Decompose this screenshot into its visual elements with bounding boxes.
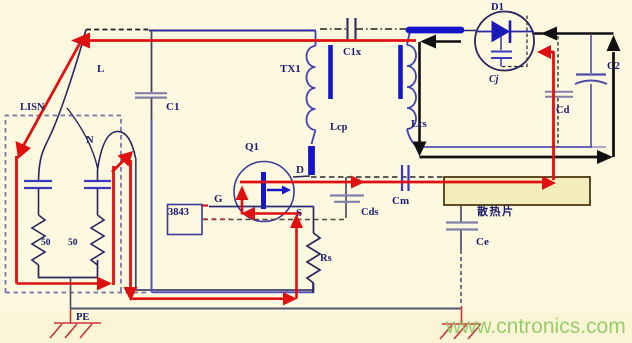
capacitor Cm plates (vertical, series) <box>402 165 409 191</box>
capacitor C1 branch top lead <box>151 31 153 92</box>
wire source to Rs <box>313 207 315 234</box>
svg-text:Cd: Cd <box>556 105 570 116</box>
red arrow right (into heatsink) <box>542 176 556 190</box>
svg-text:Lcp: Lcp <box>330 122 348 133</box>
capacitor lisn-left plates <box>24 181 52 188</box>
wire dashed Ce to earth <box>460 250 462 306</box>
svg-text:C2: C2 <box>607 61 620 72</box>
wire lisn-left cap to resistor <box>38 189 40 215</box>
wire: thin link blue bar to D1 anode <box>462 30 476 32</box>
wire Rs bottom lead <box>313 283 315 293</box>
svg-text:TX1: TX1 <box>280 63 301 75</box>
black noise loop right vertical <box>612 52 615 157</box>
wire dashed source-level return <box>203 219 346 221</box>
red arrow up (source) <box>290 214 303 229</box>
wire L input line (diagonal into LISN) <box>39 30 87 181</box>
black noise loop left stub + arrow <box>433 40 461 43</box>
red drain-level path <box>240 181 548 184</box>
resistor 50 (left) <box>32 215 45 265</box>
MOSFET Q1 circle <box>234 162 294 222</box>
svg-text:3843: 3843 <box>168 207 189 218</box>
wire gate/source line through Q1 <box>209 206 314 208</box>
resistor Rs <box>307 233 320 283</box>
svg-text:Q1: Q1 <box>245 141 259 153</box>
transformer core bar (left) <box>328 45 333 99</box>
capacitor Cds branch vertical <box>345 177 347 218</box>
red diagonal arrow up-right near N <box>112 158 126 172</box>
svg-text:S: S <box>296 207 302 219</box>
capacitor C2 plates (polarized) <box>576 73 606 75</box>
diode D1 circle <box>475 12 534 71</box>
svg-text:散热片: 散热片 <box>477 204 515 218</box>
wire N output vertical down <box>135 158 137 290</box>
LISN dashed bottom edge <box>6 292 148 294</box>
red vertical N output <box>129 160 132 296</box>
red gate loop vertical <box>241 191 244 215</box>
wire dashed Cj link to cathode <box>502 14 527 67</box>
red arrow left (top) <box>71 33 90 49</box>
ground (right, red) <box>440 306 481 339</box>
red arrow down-left (diagonal end) <box>16 141 32 159</box>
svg-text:D: D <box>296 164 304 176</box>
wire rail up to Rs bottom <box>312 283 314 293</box>
svg-text:G: G <box>214 193 223 205</box>
red gate loop horizontal <box>246 212 301 215</box>
capacitor C2 top lead <box>590 34 592 73</box>
svg-text:Ce: Ce <box>476 236 489 248</box>
diode D1 symbol <box>476 31 492 33</box>
wire Ce bottom lead <box>460 231 462 251</box>
red arrow down (below LISN) <box>124 287 138 301</box>
red vertical up to source <box>295 219 298 299</box>
capacitor Cd branch (dashed) <box>557 36 559 90</box>
wire bold blue segment (top, marked) <box>409 27 461 34</box>
black noise loop bottom <box>420 156 599 159</box>
capacitor Cd bottom dashed lead <box>557 98 559 147</box>
transformer core bar (right) <box>398 45 403 99</box>
LISN dashed enclosure box <box>6 116 122 293</box>
capacitor Cd plates <box>545 92 573 97</box>
svg-text:50: 50 <box>68 238 78 248</box>
wire C1 bottom lead down <box>151 99 153 120</box>
svg-text:Rs: Rs <box>320 253 332 264</box>
svg-text:PE: PE <box>76 312 89 323</box>
svg-text:C1x: C1x <box>343 47 362 58</box>
red arrow right (bottom path) <box>283 292 297 306</box>
capacitor Ce plates <box>446 223 478 230</box>
svg-text:C1: C1 <box>166 101 179 113</box>
red vertical to N branch <box>112 166 115 285</box>
transformer TX1 secondary winding Lcs <box>407 31 418 147</box>
wire: top dashed segment from L junction <box>86 29 149 31</box>
capacitor C2 bottom lead <box>590 84 592 147</box>
red arrow left (gate loop) <box>241 207 255 221</box>
wire lisn-left resistor to bottom bracket <box>39 260 98 278</box>
svg-text:N: N <box>86 135 94 146</box>
wire D1 cathode to right rail (top) <box>534 32 614 34</box>
black noise loop left vertical <box>418 42 421 145</box>
svg-text:Cj: Cj <box>489 74 499 85</box>
wire heatsink to Ce <box>460 205 462 222</box>
red vertical heatsink to D1 <box>552 52 555 180</box>
capacitor C1 plates <box>135 93 167 97</box>
wire red gate stub <box>201 204 208 206</box>
svg-text:50: 50 <box>41 238 51 248</box>
wire: top dash-dot segment right of C1x <box>356 28 407 30</box>
capacitor Cj (junction cap of D1) <box>500 33 502 50</box>
transformer TX1 primary winding Lcp <box>307 31 316 144</box>
svg-text:Cm: Cm <box>392 195 409 207</box>
wire PE center tap down from LISN <box>70 278 72 310</box>
red arrow right (LISN bottom) <box>97 277 112 291</box>
wire bold blue drain segment <box>308 146 315 175</box>
svg-text:L: L <box>97 63 104 75</box>
wire N input line (faint curve) <box>67 108 98 168</box>
wire dashed drain-level line <box>311 176 444 178</box>
resistor 50 (right) <box>91 215 104 265</box>
wire primary ground rail (blue) <box>152 291 314 293</box>
wire secondary return rail <box>418 146 592 148</box>
capacitor lisn-right plates <box>84 181 111 188</box>
red arrow up (gate loop) <box>236 186 249 201</box>
svg-text:D1: D1 <box>491 2 504 13</box>
wire N bottom rail to source node <box>136 289 313 291</box>
red stub + arrow left into D1 <box>545 51 555 54</box>
capacitor C1x plates (series in top line) <box>348 18 356 41</box>
red diagonal into LISN <box>21 43 80 150</box>
red bottom inside LISN <box>17 282 99 284</box>
svg-text:Lcs: Lcs <box>411 119 427 130</box>
red bottom path to source <box>131 297 289 300</box>
capacitor Cds plates <box>330 196 364 202</box>
wire PE horizontal protective-earth line <box>71 308 463 310</box>
IC 3843 box <box>168 205 203 235</box>
wire lisn-right cap to resistor <box>97 189 99 215</box>
MOSFET Q1 channel arrow (blue) <box>267 189 284 191</box>
wire drain link into Q1 <box>293 176 310 177</box>
black arrow on top wire after D1 <box>541 27 557 41</box>
wire: top dash-dot segment left of C1x <box>320 28 347 30</box>
red noise path: top horizontal <box>88 39 416 42</box>
red vertical left inside LISN <box>15 156 18 284</box>
svg-text:www.cntronics.com: www.cntronics.com <box>445 315 626 338</box>
wire lisn-right top lead <box>97 170 99 181</box>
ground PE (left, red) <box>50 309 101 338</box>
MOSFET Q1 gate bar (bold blue) <box>261 172 266 209</box>
heatsink box (散热片) <box>444 177 590 205</box>
svg-text:Cds: Cds <box>361 207 379 218</box>
svg-text:LISN: LISN <box>20 102 45 113</box>
wire: top blue solid segment to transformer <box>149 29 316 31</box>
wire N arch hop to output line <box>98 131 136 170</box>
red arrow right (drain path mid) <box>351 176 365 189</box>
